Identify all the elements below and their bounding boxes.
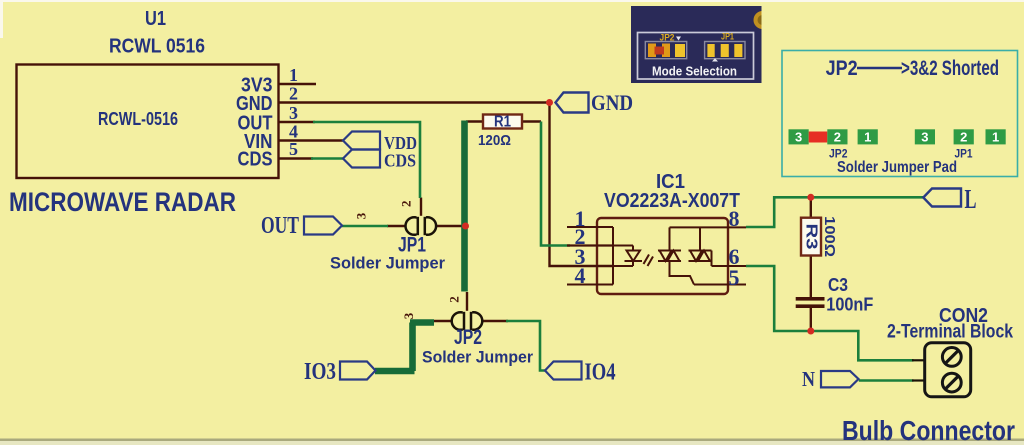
svg-text:Solder Jumper Pad: Solder Jumper Pad: [837, 159, 957, 176]
svg-text:2: 2: [447, 296, 462, 303]
svg-text:100Ω: 100Ω: [821, 216, 838, 257]
svg-text:2: 2: [960, 130, 967, 145]
svg-text:U1: U1: [145, 8, 166, 30]
svg-text:2: 2: [834, 130, 841, 145]
svg-text:IO3: IO3: [304, 359, 336, 385]
svg-text:JP1: JP1: [955, 149, 974, 161]
svg-text:2: 2: [399, 201, 414, 208]
svg-text:3: 3: [921, 130, 928, 145]
svg-text:CDS: CDS: [238, 149, 273, 171]
svg-text:1: 1: [992, 130, 999, 145]
svg-text:JP1: JP1: [721, 32, 734, 42]
svg-text:3: 3: [401, 312, 416, 319]
svg-text:5: 5: [289, 139, 298, 159]
svg-text:N: N: [802, 367, 815, 391]
svg-text:Solder Jumper: Solder Jumper: [422, 348, 533, 367]
svg-text:MICROWAVE RADAR: MICROWAVE RADAR: [9, 187, 236, 217]
svg-text:IO4: IO4: [585, 360, 616, 386]
svg-text:120Ω: 120Ω: [478, 132, 511, 149]
svg-text:3: 3: [354, 212, 369, 219]
svg-text:1: 1: [289, 65, 298, 85]
svg-text:RCWL 0516: RCWL 0516: [109, 36, 205, 58]
svg-text:2-Terminal Block: 2-Terminal Block: [887, 322, 1013, 343]
svg-text:RCWL-0516: RCWL-0516: [98, 109, 178, 129]
svg-text:100nF: 100nF: [826, 295, 873, 315]
svg-text:5: 5: [729, 265, 740, 290]
svg-text:1: 1: [864, 130, 871, 145]
svg-text:R3: R3: [803, 224, 820, 250]
svg-text:Solder Jumper: Solder Jumper: [330, 254, 445, 273]
svg-text:GND: GND: [591, 90, 633, 115]
svg-text:Mode Selection: Mode Selection: [652, 65, 737, 79]
svg-text:Bulb Connector: Bulb Connector: [842, 415, 1015, 445]
svg-text:OUT: OUT: [261, 213, 299, 239]
svg-text:4: 4: [575, 263, 586, 288]
svg-text:8: 8: [729, 206, 740, 231]
svg-text:JP2: JP2: [454, 326, 482, 349]
svg-text:R1: R1: [494, 114, 511, 131]
svg-text:3: 3: [795, 130, 802, 145]
svg-text:VO2223A-X007T: VO2223A-X007T: [604, 190, 740, 212]
svg-text:L: L: [965, 184, 977, 214]
svg-text:>3&2 Shorted: >3&2 Shorted: [901, 57, 999, 80]
svg-text:CDS: CDS: [384, 151, 416, 171]
svg-text:2: 2: [289, 84, 298, 104]
svg-text:C3: C3: [828, 275, 848, 295]
svg-text:3: 3: [289, 103, 298, 123]
svg-text:JP2: JP2: [826, 57, 858, 80]
